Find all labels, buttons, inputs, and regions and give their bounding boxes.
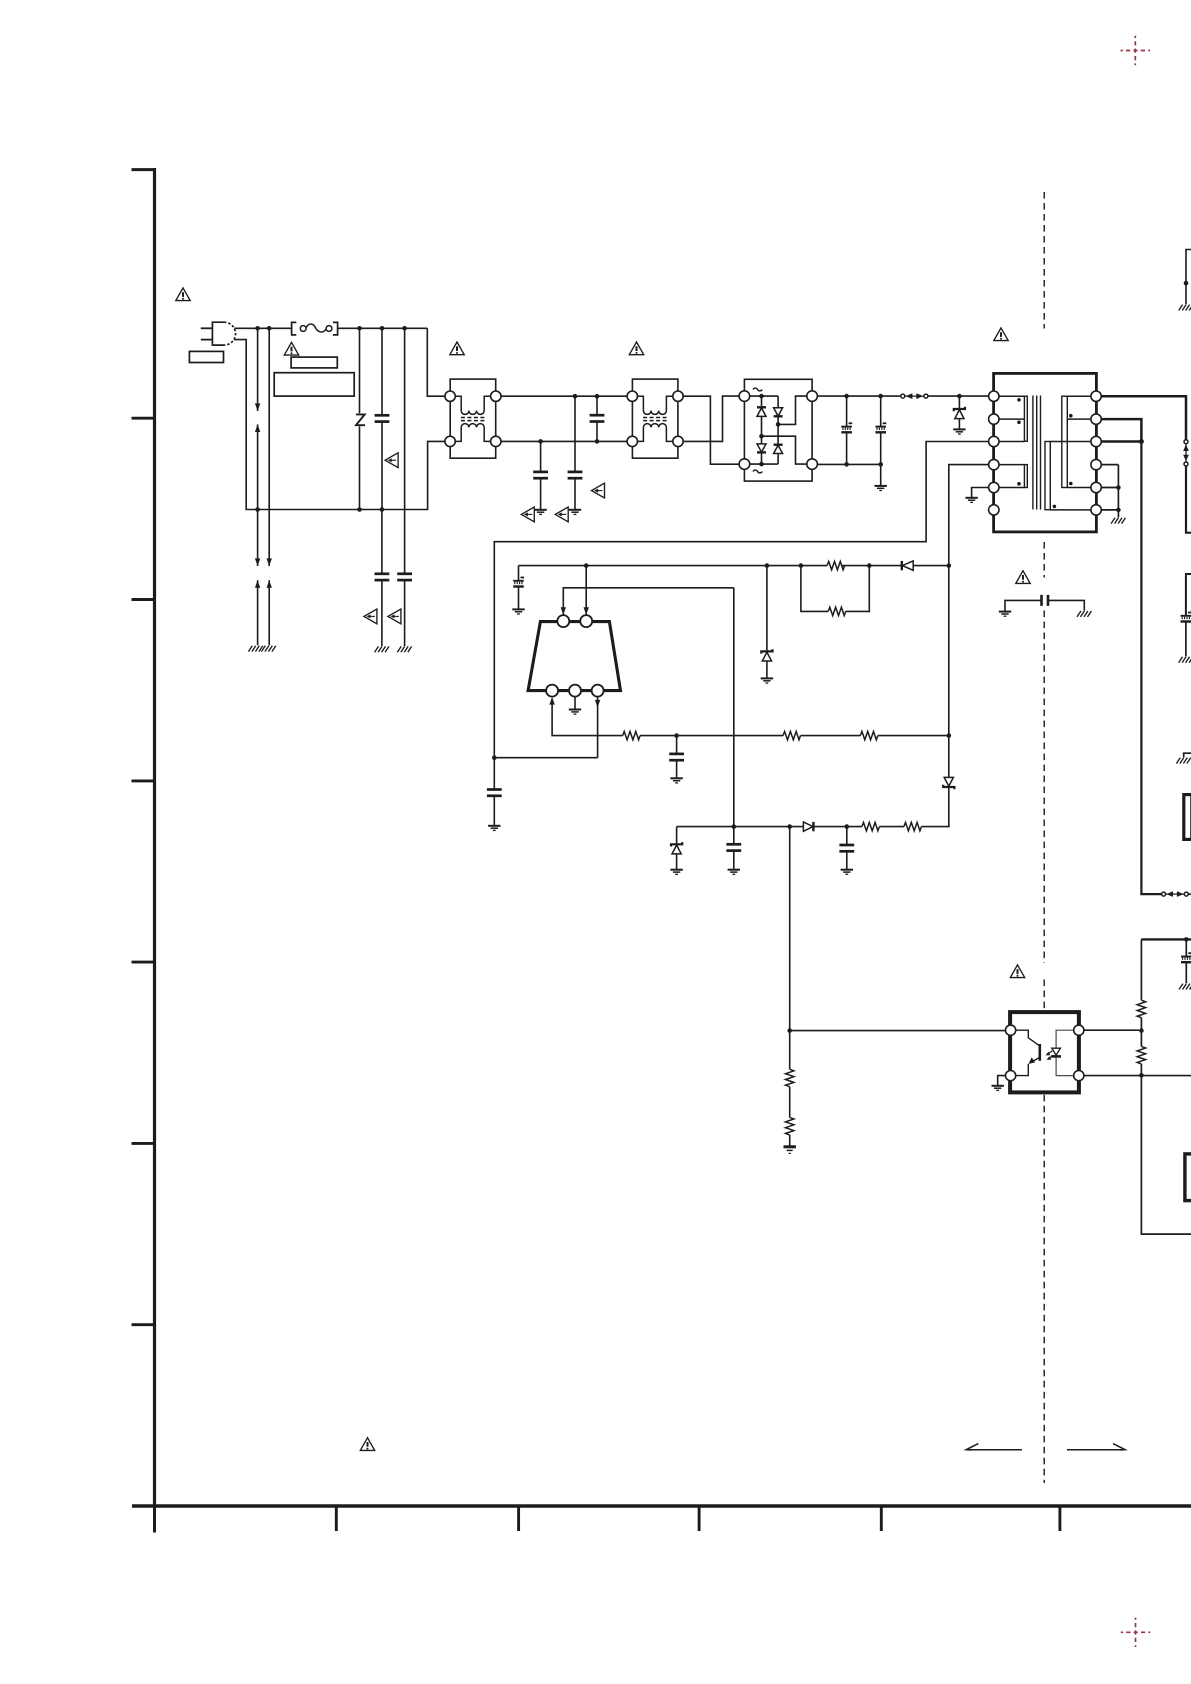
chassis ground (Y-cap 2) — [397, 646, 411, 652]
chassis ground (barrier cap right) — [1077, 611, 1091, 617]
wire: transformer pin3 to primary control — [494, 442, 988, 758]
warning triangle (above line filter 1) — [450, 342, 464, 355]
wire: IC ground pin — [574, 697, 576, 709]
wire: secondary supply rail (thick, to page edge) — [1141, 937, 1191, 942]
capacitor (after diode) — [839, 827, 854, 870]
capacitor (Y-cap line to chassis) — [375, 510, 390, 647]
chassis ground (edge cap) — [1179, 657, 1191, 663]
resistor (divider upper) — [786, 1031, 794, 1087]
earth ground (zener clamp) — [761, 678, 773, 683]
capacitor (feedback pin) — [487, 758, 502, 826]
label box (blank) small — [291, 357, 337, 368]
resistor (divider lower) — [786, 1087, 794, 1146]
earth ground (feedback cap) — [488, 826, 500, 831]
wire: secondary output exits page — [1186, 466, 1191, 533]
chassis ground (supply rail cap) — [1179, 984, 1191, 990]
chassis ground (page-edge stub) — [1176, 758, 1190, 764]
capacitor (X-cap across line) — [375, 328, 390, 509]
optocoupler PC601 — [1006, 1012, 1084, 1092]
wire: error row to aux line corner — [921, 824, 948, 826]
triangle marker (left of Y-cap 2) — [388, 609, 401, 624]
chassis ground (live line) — [248, 646, 262, 652]
capacitor (electrolytic at page edge) — [1181, 613, 1191, 657]
earth ground (sense filter cap) — [670, 778, 682, 783]
earth ground (cap under tap) — [728, 870, 740, 875]
warning triangle (barrier capacitor) — [1016, 571, 1030, 584]
earth ground (barrier cap left) — [999, 612, 1011, 617]
wire: sense row mid 2 — [801, 735, 861, 737]
capacitor (electrolytic on supply rail) — [1181, 939, 1191, 983]
connector (secondary output, vertical) — [1183, 440, 1189, 466]
wire: filter1 to filter2 top — [501, 394, 627, 399]
earth ground (after diode) — [841, 870, 853, 875]
triangle marker (near mid cap) — [592, 483, 605, 498]
earth ground (pin5) — [965, 498, 977, 503]
resistor (sense row 3) — [860, 731, 878, 739]
wire: secondary pin7 output (thick) — [1101, 396, 1186, 439]
label box (blank) large — [274, 373, 354, 396]
wire: sense row mid — [640, 733, 783, 738]
IC (partial, page edge upper) — [1184, 795, 1191, 840]
capacitor (Y-cap 2 to chassis) — [397, 328, 412, 646]
capacitor (Y-cap across isolation barrier) — [1005, 595, 1084, 611]
capacitor (to ground from top rail) — [568, 396, 583, 509]
wire: top-right partial circuit — [1184, 250, 1191, 305]
wire: stub from page edge to filter cap — [1186, 574, 1191, 616]
wire: IC feedback pin down — [492, 697, 600, 760]
wire: IC source pin to sense row — [549, 697, 622, 736]
wire: secondary rail down to connector (thick) — [1141, 442, 1161, 895]
resistor (parallel branch) — [801, 566, 869, 616]
wire: filter2 bottom to bridge AC1 (crossover) — [683, 396, 739, 441]
wire: IC Vcc pin lead — [584, 566, 589, 615]
capacitor (to ground after filter1) — [533, 441, 548, 509]
warning triangle (bottom note) — [360, 1438, 374, 1451]
wire: error amp row — [677, 824, 862, 829]
wire: pins 10-11-12 common — [1101, 465, 1120, 518]
fuse F101 — [292, 322, 338, 335]
wire: opto LED cathode (exits page) — [1084, 1073, 1191, 1078]
resistor (LED pull-up 1) — [1137, 939, 1145, 1017]
line filter L101 — [445, 379, 501, 458]
warning triangle (below fuse) — [284, 342, 298, 355]
resistor (LED pull-up 2) — [1137, 1018, 1145, 1064]
zener diode (on aux line) — [943, 777, 954, 826]
wire: filter2 top to bridge AC2 (crossover) — [683, 396, 739, 464]
wire: opto emitter to ground — [998, 1076, 1006, 1086]
zener diode (error row left end) — [671, 827, 682, 870]
resistor (sense row 1) — [623, 731, 641, 739]
bridge rectifier D101 — [739, 379, 817, 481]
direction arrow (left) — [966, 1444, 1022, 1450]
wire: opto LED anode — [1084, 1029, 1139, 1031]
wire: pin5 to earth ground — [972, 488, 989, 498]
resistor (error row 2) — [904, 822, 922, 830]
resistor (in-line on Vcc rail) — [827, 561, 845, 569]
wire: Vcc rail (to IC supply) — [519, 563, 949, 568]
line filter L102 — [627, 379, 683, 458]
wire: down to lower corner (exits page) — [1141, 1064, 1191, 1234]
zener diode (snubber on DC bus) — [954, 396, 965, 429]
earth ground (cap 2) — [569, 510, 581, 515]
capacitor (sense filter) — [669, 736, 684, 778]
diode (on Vcc rail, cathode left) — [902, 561, 913, 570]
direction arrow (right) — [1067, 1444, 1125, 1450]
AC plug P101 — [201, 322, 236, 345]
earth ground (zener) — [953, 429, 965, 434]
triangle marker (near X-cap) — [385, 453, 398, 468]
wire: secondary pin8 (thick) — [1101, 419, 1141, 441]
earth ground (cap 1) — [534, 510, 546, 515]
earth ground (Vcc cap) — [512, 609, 524, 614]
chassis ground (neutral line) — [261, 646, 275, 652]
wire: DC- rail to ground — [817, 462, 883, 485]
earth ground (DC- rail) — [875, 486, 887, 491]
earth ground (divider, thick bar) — [784, 1147, 796, 1154]
wire: IC input feed — [561, 588, 734, 615]
triangle marker (ground 2) — [555, 507, 568, 522]
wire: live line to chassis (with break arrows) — [255, 328, 260, 645]
wire: neutral line to chassis (with break arrows) — [267, 328, 272, 645]
capacitor (electrolytic, Vcc filter) — [513, 566, 524, 609]
varistor Z (surge absorber) — [356, 328, 365, 509]
wire: error row mid — [879, 826, 904, 828]
chassis ground (Y-cap 1) — [375, 646, 389, 652]
earth ground (IC) — [569, 710, 581, 715]
transformer T101 — [989, 373, 1102, 532]
wire: AC neutral bottom rail — [234, 340, 445, 512]
warning triangle (left of transformer) — [994, 328, 1008, 341]
capacitor (under feedback tap) — [726, 827, 741, 870]
wire: transformer pin4 feed (auxiliary) — [947, 465, 989, 777]
wire: secondary pin9 (thick) — [1101, 439, 1144, 444]
connector (in-line, DC bus) — [901, 393, 928, 399]
resistor (sense row 2) — [783, 731, 801, 739]
wire: opto drive down and across — [787, 827, 1005, 1033]
chassis ground (secondary common) — [1111, 518, 1125, 524]
diode (error row, cathode right) — [803, 822, 813, 831]
label box (blank) under plug — [189, 351, 223, 362]
warning triangle (above optocoupler) — [1010, 965, 1024, 978]
wire: page-edge stub to chassis ground — [1184, 753, 1191, 757]
resistor (error row 1) — [862, 822, 880, 830]
earth ground (error zener) — [670, 870, 682, 875]
triangle marker (left of Y-cap 1) — [364, 609, 377, 624]
isolation barrier (dash line) — [1043, 192, 1045, 1483]
zener diode (Vcc clamp) — [761, 566, 772, 678]
wire: filter1 to filter2 bottom — [501, 439, 627, 444]
wire: DC+ bus to transformer pin1 — [817, 394, 988, 399]
warning triangle (above line filter 2) — [629, 342, 643, 355]
IC (partial, page edge) — [1185, 1154, 1191, 1201]
chassis ground (top-right) — [1179, 305, 1191, 311]
capacitor (across line between filters) — [590, 396, 605, 441]
warning triangle (near AC inlet) — [176, 288, 190, 301]
connector (secondary, horizontal) — [1162, 891, 1191, 897]
triangle marker (ground 1) — [521, 507, 534, 522]
regulator IC601 (hybrid, trapezoid) — [528, 615, 620, 697]
earth ground (opto emitter) — [992, 1086, 1004, 1091]
capacitor C110 (electrolytic smoothing 1) — [841, 396, 852, 464]
wire: AC live top rail — [234, 326, 445, 396]
wire: feedback branch down — [732, 588, 737, 829]
wire: sense row to aux line — [878, 735, 949, 737]
capacitor C111 (electrolytic smoothing 2) — [875, 396, 886, 464]
